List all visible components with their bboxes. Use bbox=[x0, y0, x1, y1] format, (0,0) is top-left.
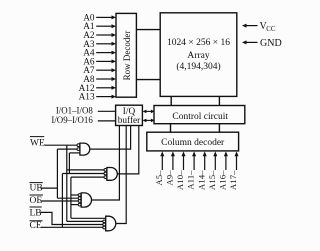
gate G1 (3-input, top) bbox=[80, 143, 90, 155]
bubble G4 in2 bbox=[103, 220, 106, 223]
wire control-column left bbox=[170, 124, 172, 133]
wire net-E vertical bbox=[70, 177, 72, 218]
wire A6 bbox=[96, 60, 112, 62]
wire G3 output to buffer bbox=[92, 126, 120, 201]
svg-text:OE: OE bbox=[30, 196, 43, 206]
wire array-control right bbox=[218, 96, 220, 105]
svg-text:I/O9–I/O16: I/O9–I/O16 bbox=[51, 115, 93, 125]
wire rowdec-array upper bbox=[136, 29, 160, 31]
svg-text:CC: CC bbox=[266, 25, 276, 33]
column address arrows A5..A17 into column decoder bbox=[160, 151, 238, 170]
gate G3 (4-input) bbox=[81, 193, 91, 207]
wire rowdec-array lower bbox=[136, 79, 160, 81]
svg-text:A5–: A5– bbox=[154, 170, 164, 186]
wire LB jog bbox=[41, 212, 103, 224]
svg-text:(4,194,304): (4,194,304) bbox=[176, 61, 220, 72]
bubble G2 in3 bbox=[104, 176, 107, 179]
wire A7 bbox=[96, 69, 112, 71]
wire IO9-16 to buffer bbox=[98, 120, 116, 122]
svg-text:A14–: A14– bbox=[196, 170, 206, 190]
memory array box bbox=[160, 13, 237, 97]
svg-text:A10–: A10– bbox=[175, 170, 185, 190]
wire IO1-8 to buffer bbox=[98, 110, 116, 112]
wire net-A to G3 in2 bbox=[57, 197, 78, 199]
wire net-D to G4 in2 bbox=[67, 220, 103, 222]
bubble G3 in1 bbox=[78, 194, 81, 197]
svg-text:A15–: A15– bbox=[207, 170, 217, 190]
column decoder box bbox=[147, 132, 239, 151]
wire UB to net-A bbox=[41, 187, 58, 189]
wire net-C to G1 in3 bbox=[69, 152, 80, 154]
wire A5 bbox=[161, 156, 163, 171]
wire WE to G1 in1 bbox=[45, 144, 78, 146]
wire net-B vertical bbox=[61, 174, 63, 228]
svg-text:A9–: A9– bbox=[165, 170, 175, 186]
svg-text:1024 × 256 × 16: 1024 × 256 × 16 bbox=[167, 38, 230, 48]
bubble G3 in3 bbox=[78, 200, 81, 203]
svg-text:A11–: A11– bbox=[186, 170, 196, 190]
svg-text:Array: Array bbox=[187, 51, 209, 61]
wire net-C vertical bbox=[68, 153, 70, 174]
wire net-B to G2 in2 bbox=[62, 173, 104, 175]
wire net-D to G2 in1 bbox=[67, 169, 104, 171]
wire buffer-control bidir lower bbox=[143, 119, 155, 123]
power pin GND bbox=[242, 40, 258, 44]
I/O buffer box bbox=[116, 105, 143, 125]
bubble G2 in1 bbox=[104, 169, 107, 172]
svg-text:A17–: A17– bbox=[228, 170, 238, 190]
bubble G4 in4 bbox=[103, 226, 106, 229]
wire net-E to G2 in3 bbox=[71, 176, 104, 178]
wire net-E to G4 in1 bbox=[71, 217, 106, 219]
wire net-A vertical bbox=[56, 149, 58, 198]
wire net-D vertical (WE fanout) bbox=[66, 145, 68, 221]
svg-text:Control circuit: Control circuit bbox=[172, 112, 228, 122]
svg-text:LB: LB bbox=[30, 208, 42, 218]
wire A2 bbox=[96, 34, 112, 36]
wire A13 bbox=[96, 96, 112, 98]
svg-text:WE: WE bbox=[30, 138, 45, 148]
gate G4 (4-input, bottom) bbox=[106, 216, 116, 231]
wire net-A to G1 in2 bbox=[57, 148, 77, 150]
bubble G3 in2 bbox=[78, 197, 81, 200]
svg-text:A16–: A16– bbox=[218, 170, 228, 190]
wire A11 bbox=[193, 156, 195, 171]
bubble G1 in1 bbox=[77, 144, 80, 147]
wire A4 bbox=[96, 52, 112, 54]
bubble G1 in2 bbox=[77, 148, 80, 151]
svg-text:GND: GND bbox=[260, 38, 282, 49]
wire A0 bbox=[96, 16, 112, 18]
wire A12 bbox=[96, 87, 112, 89]
wire CE to G4 in4 bbox=[41, 226, 103, 228]
control circuit box bbox=[154, 106, 245, 124]
wire A1 bbox=[96, 25, 112, 27]
wire OE to G3 in3 bbox=[41, 200, 79, 202]
wire A9 bbox=[172, 156, 174, 171]
wire net-E to G3 in1 bbox=[71, 194, 78, 196]
wire A8 bbox=[96, 78, 112, 80]
svg-text:buffer: buffer bbox=[118, 115, 141, 126]
wire G1 output to buffer bbox=[90, 126, 130, 150]
power pin VCC bbox=[242, 24, 258, 28]
wire array-control left bbox=[170, 96, 172, 105]
wire G4 output to buffer bbox=[116, 126, 126, 224]
address inputs A0-A13 bbox=[79, 13, 95, 102]
bubble G2 in2 bbox=[104, 172, 107, 175]
wire control-column right bbox=[218, 124, 220, 133]
svg-text:Row Decoder: Row Decoder bbox=[122, 31, 132, 81]
wire A15 bbox=[214, 156, 216, 171]
wire buffer-control bidir upper bbox=[143, 110, 155, 114]
wire A16 bbox=[225, 156, 227, 171]
wire A10 bbox=[183, 156, 185, 171]
wire A17 bbox=[236, 156, 238, 171]
row decoder box U1 bbox=[116, 13, 136, 97]
wire A14 bbox=[204, 156, 206, 171]
wire net-E to G3 in4 bbox=[71, 204, 78, 206]
wire A3 bbox=[96, 43, 112, 45]
svg-text:A13: A13 bbox=[79, 93, 95, 103]
svg-text:CE: CE bbox=[30, 221, 42, 231]
wire G2 output to buffer bbox=[118, 126, 139, 174]
bubble G4 in3 bbox=[103, 223, 106, 226]
svg-text:Column decoder: Column decoder bbox=[161, 138, 225, 148]
bubble G3 in4 bbox=[78, 203, 81, 206]
gate G2 (3-input) bbox=[107, 167, 117, 180]
control signal labels with overbars bbox=[30, 137, 45, 232]
